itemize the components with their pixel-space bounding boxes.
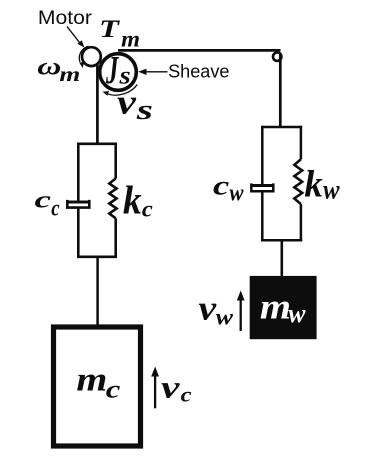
label Sheave bbox=[168, 60, 229, 81]
svg-text:ω: ω bbox=[37, 54, 61, 81]
svg-text:k: k bbox=[123, 178, 142, 223]
sheave circle bbox=[100, 54, 137, 91]
damper c_w (left wall of right assembly) bbox=[251, 126, 273, 242]
svg-text:c: c bbox=[181, 382, 192, 406]
label m_w (white) bbox=[260, 287, 291, 327]
mass m_c box bbox=[54, 327, 141, 446]
svg-text:c: c bbox=[106, 376, 121, 404]
svg-text:m: m bbox=[121, 27, 140, 52]
wire rope vertical from pulley down to right spring-damper bbox=[279, 53, 282, 128]
svg-text:v: v bbox=[161, 369, 180, 404]
arrow v_c (upward) bbox=[151, 367, 159, 409]
curved arrow v_s rope direction under sheave bbox=[103, 85, 138, 96]
svg-text:m: m bbox=[76, 360, 107, 398]
damper c_c (left wall of assembly) bbox=[67, 143, 89, 259]
label v_c bbox=[161, 369, 180, 404]
label m_c bbox=[76, 360, 107, 398]
svg-text:Sheave: Sheave bbox=[168, 60, 229, 81]
pulley top right bbox=[273, 53, 281, 61]
label omega_m bbox=[37, 54, 61, 81]
svg-text:c: c bbox=[35, 185, 51, 212]
mass m_w box (solid black) bbox=[250, 276, 317, 339]
arrow from Motor label to motor circle bbox=[67, 27, 84, 48]
label k_w bbox=[304, 164, 323, 206]
svg-text:k: k bbox=[304, 164, 323, 206]
svg-text:v: v bbox=[198, 290, 216, 328]
svg-text:m: m bbox=[59, 64, 80, 86]
label c_w bbox=[213, 171, 229, 202]
wire from right assembly down to mass m_w bbox=[280, 240, 283, 277]
wire rope horizontal from sheave to pulley bbox=[118, 49, 281, 52]
label c_c bbox=[35, 185, 51, 212]
curved arrow omega_m rotation bbox=[79, 46, 88, 68]
svg-text:Motor: Motor bbox=[38, 8, 92, 29]
svg-text:c: c bbox=[213, 171, 229, 202]
svg-text:w: w bbox=[323, 174, 340, 205]
arrow v_w (upward) bbox=[237, 291, 245, 332]
label v_s bbox=[117, 83, 137, 122]
label Motor bbox=[38, 8, 92, 29]
arrow from Sheave label to sheave bbox=[138, 69, 167, 75]
right assembly top bar bbox=[261, 126, 302, 129]
right assembly bottom bar bbox=[261, 239, 302, 242]
svg-text:w: w bbox=[216, 304, 234, 330]
label J_s inside sheave bbox=[105, 48, 119, 93]
svg-text:s: s bbox=[136, 94, 153, 126]
spring k_c (right wall of assembly) bbox=[109, 143, 116, 259]
label T_m bbox=[99, 15, 120, 43]
svg-text:w: w bbox=[229, 179, 244, 206]
spring k_w (right wall of right assembly) bbox=[294, 126, 302, 242]
svg-text:m: m bbox=[260, 287, 291, 327]
left assembly bottom bar bbox=[77, 255, 117, 258]
label k_c bbox=[123, 178, 142, 223]
left assembly top bar bbox=[77, 143, 117, 146]
motor circle bbox=[82, 47, 101, 66]
wire rope vertical from sheave down to left spring-damper bbox=[96, 64, 99, 145]
svg-text:c: c bbox=[51, 195, 60, 221]
svg-text:c: c bbox=[142, 197, 153, 222]
svg-text:v: v bbox=[117, 83, 137, 122]
svg-text:T: T bbox=[99, 15, 120, 43]
svg-text:w: w bbox=[288, 299, 306, 328]
wire from left assembly down to mass m_c bbox=[96, 257, 99, 326]
label v_w bbox=[198, 290, 216, 328]
